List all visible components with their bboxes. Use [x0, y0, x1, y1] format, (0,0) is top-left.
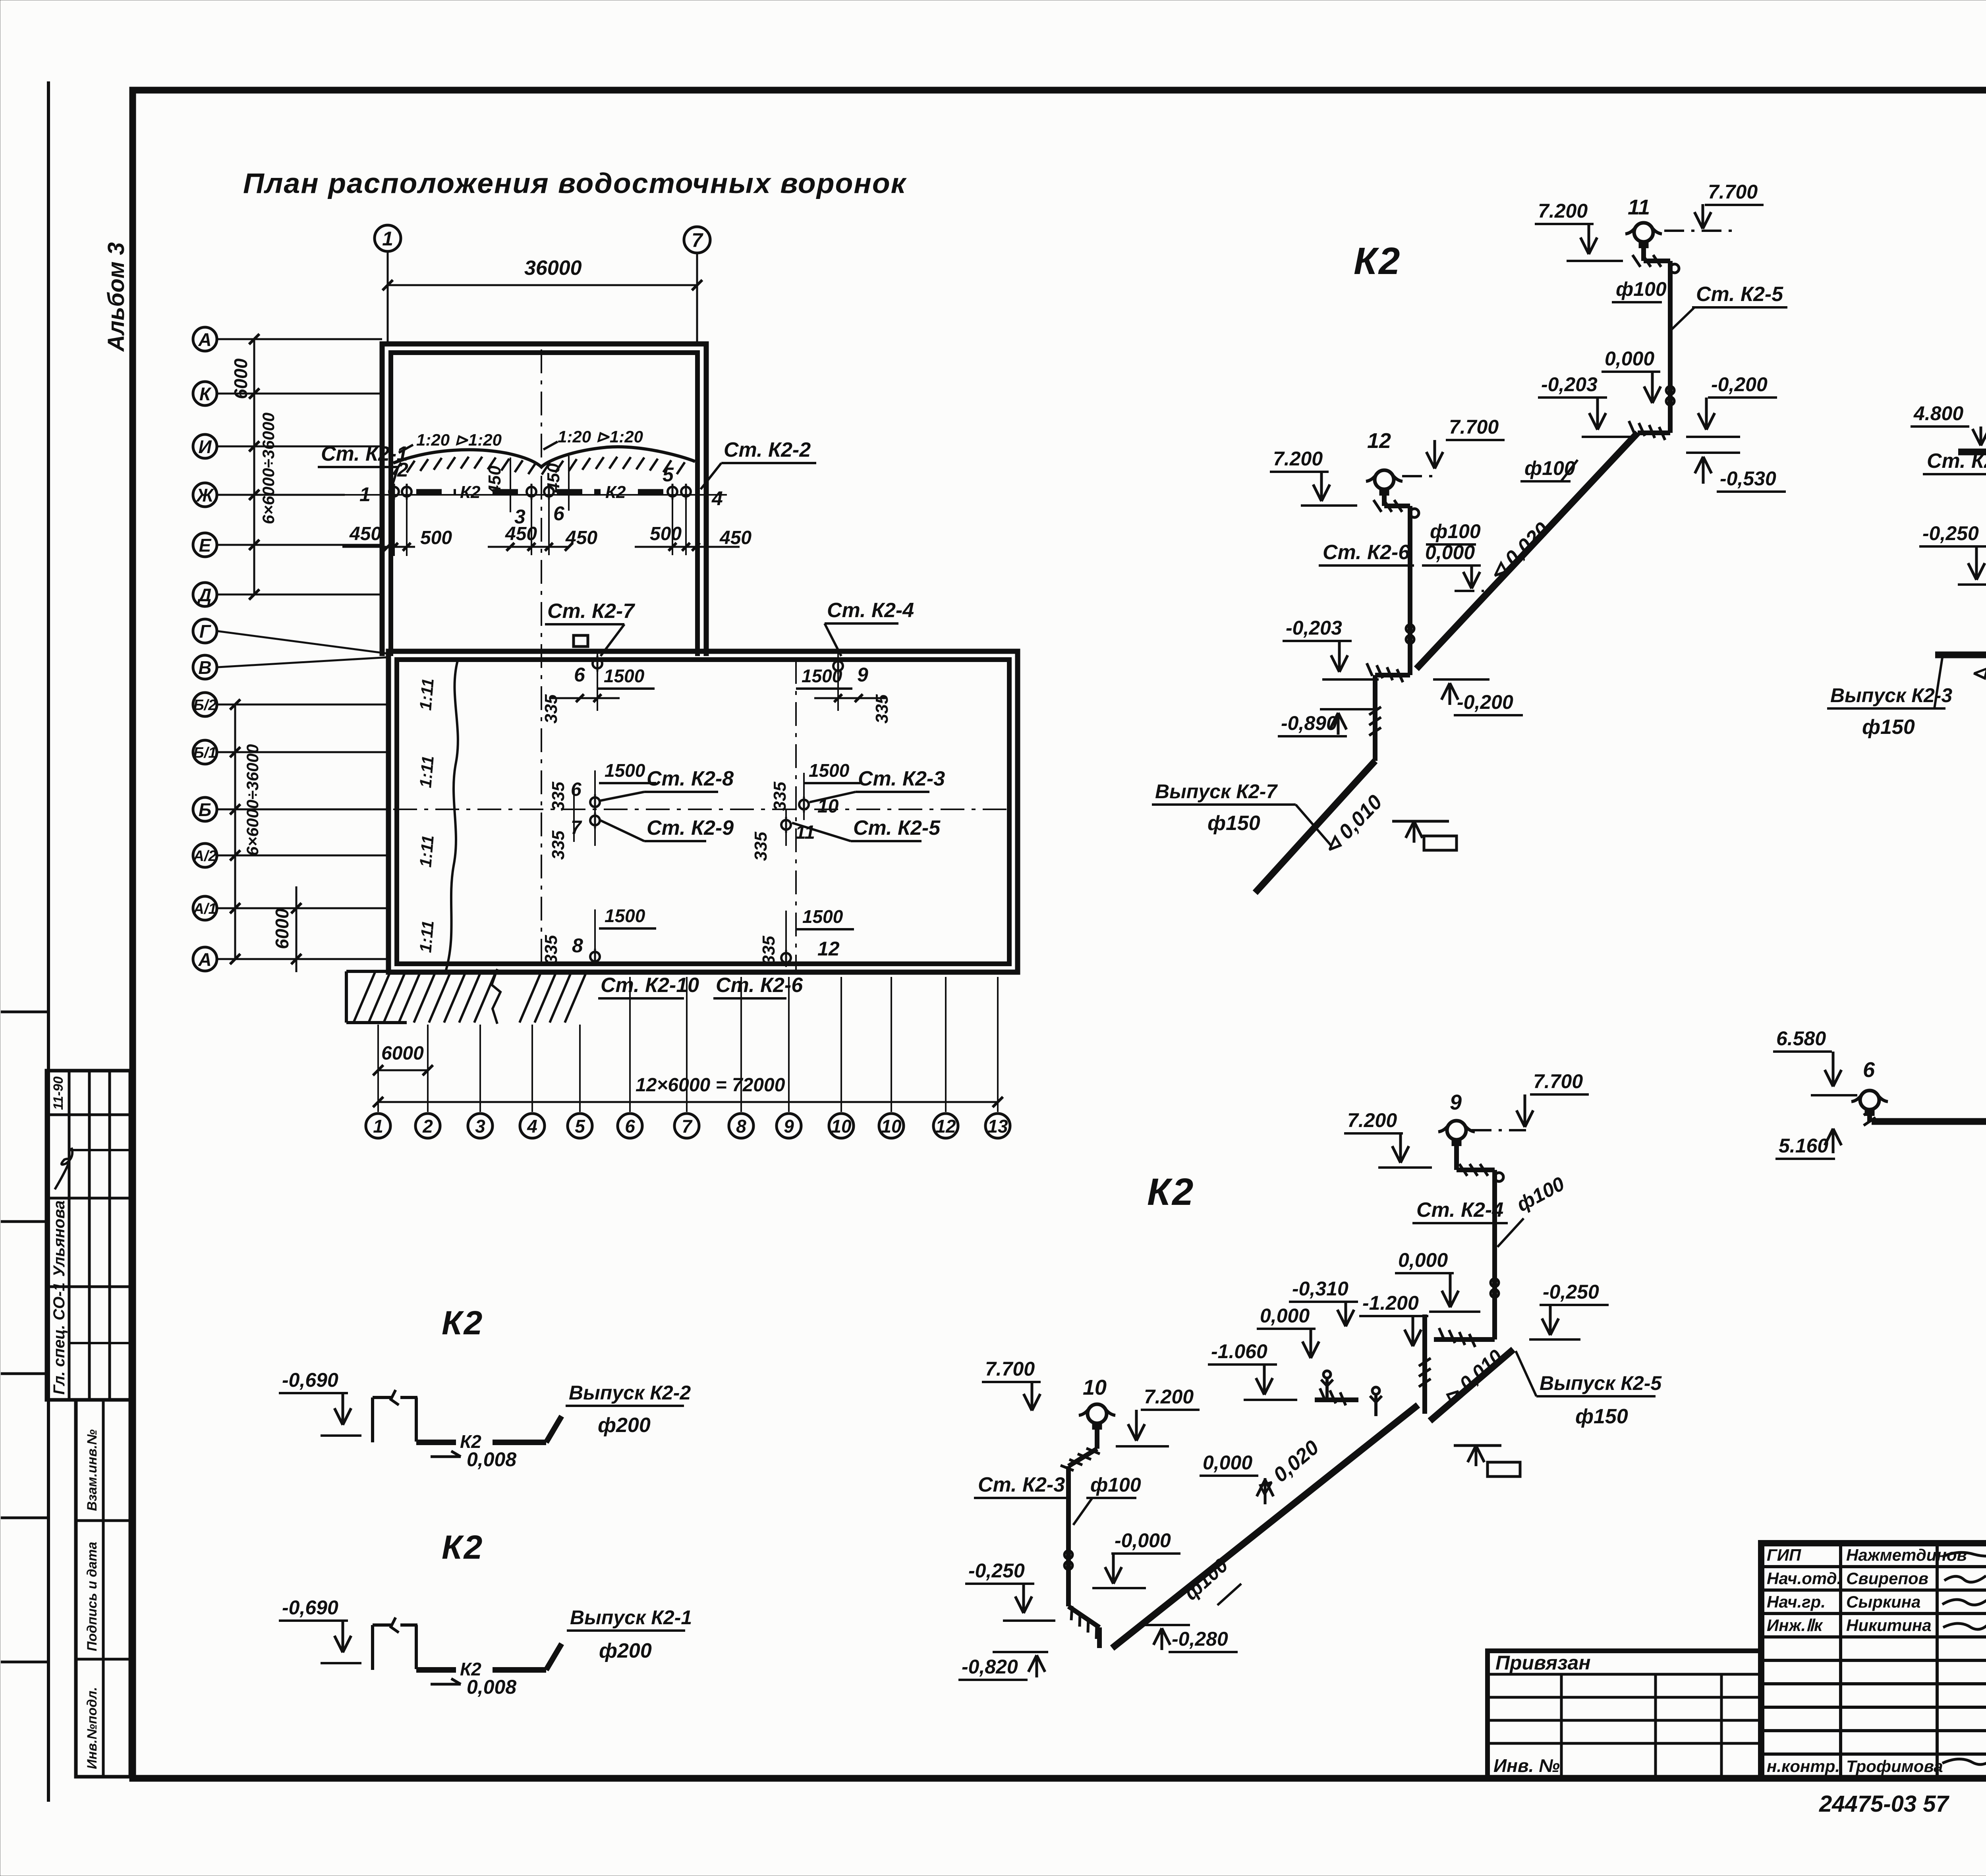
svg-text:450: 450 — [349, 523, 381, 544]
stack square mark on top wall — [574, 635, 588, 647]
svg-text:335: 335 — [549, 830, 568, 860]
funnel 6 dim line — [551, 697, 620, 699]
roof funnel 6 middle — [590, 797, 600, 807]
svg-text:1:11: 1:11 — [416, 755, 437, 789]
cleanout stack К2-4 — [1491, 1279, 1499, 1287]
roof funnel 1 — [389, 487, 399, 496]
svg-text:А: А — [198, 949, 211, 970]
svg-text:7: 7 — [682, 1116, 693, 1137]
svg-text:13: 13 — [987, 1116, 1008, 1137]
roof ridge hatching — [393, 463, 401, 475]
svg-text:12: 12 — [1367, 429, 1391, 453]
roof funnel 9 lower building — [833, 661, 843, 671]
svg-text:8: 8 — [572, 934, 583, 957]
svg-text:6: 6 — [574, 664, 585, 686]
svg-text:Ст. К2-8: Ст. К2-8 — [647, 767, 734, 790]
svg-text:450: 450 — [544, 463, 563, 493]
svg-text:ф100: ф100 — [1524, 457, 1575, 479]
svg-text:А/2: А/2 — [193, 848, 216, 865]
svg-text:Ст. К2-10: Ст. К2-10 — [601, 974, 699, 997]
funnel 6 axis line — [597, 651, 598, 711]
centerline axis Б horizontal — [393, 809, 1014, 810]
svg-text:-1.060: -1.060 — [1211, 1340, 1267, 1363]
svg-text:1: 1 — [359, 483, 371, 506]
funnel 11 schematic — [1634, 223, 1653, 242]
slope arrow 0,008 E — [431, 1455, 461, 1458]
ground arrow C — [1454, 1444, 1501, 1447]
axis circle К — [193, 382, 217, 405]
column circle 1 — [366, 1114, 390, 1138]
svg-text:Привязан: Привязан — [1495, 1652, 1591, 1674]
svg-text:К: К — [199, 384, 212, 404]
svg-text:335: 335 — [541, 935, 561, 964]
svg-text:А: А — [198, 329, 211, 350]
svg-text:1500: 1500 — [604, 666, 645, 686]
svg-text:3: 3 — [475, 1116, 485, 1137]
svg-text:24475-03 57: 24475-03 57 — [1819, 1791, 1949, 1817]
svg-text:-0,250: -0,250 — [968, 1559, 1025, 1582]
left margin stamp table upper box — [46, 1071, 130, 1400]
K2 roof drain line dashed left — [416, 489, 456, 494]
svg-text:335: 335 — [549, 782, 568, 811]
dimension line 6000 lower — [296, 886, 298, 972]
dimension line 72000 — [378, 1101, 998, 1103]
outlet pipe E — [416, 1440, 456, 1445]
svg-text:7: 7 — [692, 229, 703, 251]
axis leader line В — [218, 657, 388, 667]
axis circle В — [193, 655, 217, 679]
svg-text:0,008: 0,008 — [467, 1676, 516, 1698]
well box F — [371, 1625, 374, 1670]
svg-text:ф200: ф200 — [599, 1639, 652, 1662]
svg-text:7.700: 7.700 — [1708, 181, 1758, 203]
funnel 12 axis line — [785, 911, 787, 967]
svg-text:-1.200: -1.200 — [1362, 1292, 1419, 1314]
column circle 4 — [520, 1114, 545, 1138]
axis leader line Г — [217, 631, 388, 654]
svg-text:-0,250: -0,250 — [1543, 1281, 1599, 1303]
svg-text:Ст. К2-3: Ст. К2-3 — [858, 767, 945, 790]
basement rect C — [1488, 1462, 1520, 1476]
ground arrow at outlet A — [1392, 820, 1449, 823]
svg-text:0,000: 0,000 — [1260, 1305, 1310, 1327]
svg-text:-0,250: -0,250 — [1922, 522, 1979, 544]
svg-text:-0,690: -0,690 — [282, 1596, 338, 1619]
svg-text:5: 5 — [663, 463, 674, 486]
lower riser to outlet — [1373, 675, 1377, 761]
svg-text:6000: 6000 — [381, 1043, 424, 1064]
svg-text:450: 450 — [719, 527, 752, 548]
svg-text:Выпуск К2-2: Выпуск К2-2 — [569, 1382, 691, 1404]
svg-text:План расположения водосточных: План расположения водосточных воронок — [243, 168, 907, 199]
svg-text:-0,000: -0,000 — [1115, 1529, 1171, 1552]
svg-text:1500: 1500 — [605, 760, 645, 781]
axis circle А — [193, 947, 217, 971]
roof funnel 11 middle — [781, 820, 791, 830]
collector pipe segment C — [1315, 1397, 1358, 1402]
roof funnel 3 — [527, 487, 536, 496]
K2 roof drain line dashed mid — [557, 489, 601, 494]
dimension line 6000 columns — [378, 1069, 428, 1071]
outlet pipe F — [416, 1667, 456, 1673]
svg-text:К2: К2 — [1147, 1171, 1195, 1213]
svg-text:Нач.гр.: Нач.гр. — [1767, 1592, 1826, 1611]
outlet diagonal Выпуск К2-5 — [1430, 1349, 1513, 1421]
svg-text:-0,200: -0,200 — [1457, 691, 1513, 713]
svg-text:0,008: 0,008 — [467, 1448, 516, 1471]
junction elbow bottom A — [1375, 673, 1410, 677]
title block staff columns — [1839, 1543, 1842, 1778]
column circle 2 — [415, 1114, 440, 1138]
roof funnel 6 — [544, 487, 554, 496]
svg-text:7.200: 7.200 — [1347, 1109, 1397, 1131]
lower building wall inner — [397, 660, 1009, 964]
column circle 1 top — [375, 225, 401, 251]
svg-text:Д: Д — [197, 585, 211, 605]
axis circle Б — [193, 797, 217, 821]
svg-text:-0,203: -0,203 — [1541, 373, 1598, 396]
svg-text:Ульянова: Ульянова — [50, 1200, 68, 1277]
axis circle Г — [193, 619, 217, 643]
attachment table left — [1488, 1651, 1761, 1778]
svg-text:Ст. К2-4: Ст. К2-4 — [827, 599, 914, 622]
column circle 13 — [985, 1114, 1010, 1138]
svg-text:1500: 1500 — [809, 760, 850, 781]
svg-text:Б/1: Б/1 — [193, 745, 217, 761]
svg-text:9: 9 — [857, 664, 868, 686]
svg-text:4: 4 — [527, 1116, 537, 1137]
svg-text:Нач.отд.: Нач.отд. — [1767, 1569, 1841, 1588]
upper building wall inner — [391, 353, 697, 656]
svg-text:Инж.Ⅱк: Инж.Ⅱк — [1767, 1616, 1823, 1635]
svg-text:450: 450 — [505, 523, 537, 544]
left margin attribute strip box — [76, 1400, 130, 1777]
svg-text:Инв. №: Инв. № — [1493, 1755, 1560, 1776]
svg-text:Никитина: Никитина — [1846, 1616, 1932, 1635]
column circle 6 — [618, 1114, 642, 1138]
left margin stamp table horizontals — [46, 1114, 130, 1116]
svg-text:-0,200: -0,200 — [1711, 373, 1768, 396]
roof funnel 2 — [402, 487, 411, 496]
column circle 8 — [729, 1114, 753, 1138]
svg-text:Инв.№подл.: Инв.№подл. — [85, 1687, 100, 1769]
svg-text:1500: 1500 — [605, 905, 645, 926]
upper building wall outer — [382, 344, 706, 656]
title block staff signatures — [1942, 1552, 1986, 1557]
title block outline — [1761, 1543, 1986, 1778]
svg-text:8: 8 — [736, 1116, 746, 1137]
svg-text:ф100: ф100 — [1616, 278, 1667, 300]
axis circle А/2 — [193, 843, 217, 867]
funnel 6 schematic — [1860, 1090, 1879, 1110]
main horizontal pipe D — [1872, 1118, 1986, 1125]
axis circle Е — [193, 533, 217, 557]
axis circle И — [193, 434, 217, 458]
svg-text:Ст. К2-9: Ст. К2-9 — [647, 816, 734, 840]
svg-text:ф200: ф200 — [598, 1414, 651, 1437]
terrain wavy line inside building — [446, 661, 458, 971]
riser stack К2-5 — [1641, 241, 1646, 261]
svg-text:7.700: 7.700 — [1533, 1070, 1583, 1092]
svg-text:6: 6 — [553, 502, 565, 525]
svg-text:Гл. спец. СО-1: Гл. спец. СО-1 — [50, 1282, 68, 1395]
roof funnel 8 lower — [590, 952, 600, 961]
svg-text:Ст. К2-1: Ст. К2-1 — [1927, 450, 1986, 473]
svg-text:10: 10 — [881, 1116, 902, 1137]
left margin attribute strip divider — [102, 1400, 105, 1777]
svg-text:12: 12 — [935, 1116, 956, 1137]
svg-text:ф150: ф150 — [1207, 812, 1260, 835]
funnel 9 dim line — [814, 697, 886, 699]
svg-text:10: 10 — [1083, 1376, 1107, 1399]
svg-text:1500: 1500 — [802, 906, 843, 927]
svg-text:6: 6 — [571, 779, 582, 800]
cleanout stack К2-3 — [1064, 1551, 1072, 1559]
bottom elbow stack К2-3 — [1068, 1606, 1099, 1627]
svg-text:Б: Б — [199, 799, 212, 820]
centerline axis 5 vertical — [541, 349, 542, 972]
svg-text:12×6000 = 72000: 12×6000 = 72000 — [636, 1075, 785, 1096]
svg-text:0,000: 0,000 — [1605, 347, 1654, 370]
svg-text:1: 1 — [373, 1116, 383, 1137]
funnel 6/7 axis lines middle — [594, 770, 596, 846]
funnel 8 axis line — [594, 909, 596, 966]
svg-text:Ж: Ж — [196, 485, 214, 506]
column circle 5 — [568, 1114, 592, 1138]
column extension lines — [377, 1025, 379, 1112]
roof funnel 7 middle — [590, 816, 600, 825]
column circle 12 — [933, 1114, 958, 1138]
svg-text:Трофимова: Трофимова — [1846, 1757, 1943, 1776]
svg-text:-0,820: -0,820 — [962, 1656, 1018, 1678]
svg-text:6000: 6000 — [272, 908, 292, 949]
svg-text:-0,310: -0,310 — [1292, 1278, 1348, 1300]
well box E — [371, 1397, 374, 1442]
funnel 10/11 axis lines — [803, 773, 805, 820]
riser stack К2-3 — [1095, 1424, 1099, 1449]
svg-text:Ст. К2-3: Ст. К2-3 — [978, 1473, 1065, 1496]
svg-text:9: 9 — [784, 1116, 794, 1137]
sheet left edge line — [47, 81, 50, 1802]
svg-text:11: 11 — [1628, 195, 1650, 219]
vertical 450 dim line right — [568, 456, 570, 511]
axis circle А/1 — [193, 896, 217, 920]
roof ridge wavy line — [393, 447, 695, 467]
svg-text:-0,280: -0,280 — [1172, 1628, 1228, 1650]
svg-text:-0,890: -0,890 — [1281, 712, 1337, 734]
svg-text:Выпуск К2-1: Выпуск К2-1 — [570, 1606, 692, 1629]
svg-text:Ст. К2-1: Ст. К2-1 — [321, 442, 408, 465]
outlet diagonal К2-7 — [1255, 761, 1375, 893]
svg-text:0,000: 0,000 — [1425, 541, 1475, 564]
left vertical dimension line upper — [253, 339, 255, 594]
svg-text:Ст. К2-6: Ст. К2-6 — [716, 974, 803, 997]
riser stack К2-6 — [1382, 488, 1387, 506]
axis circle Д — [193, 583, 217, 606]
svg-text:Ст. К2-4: Ст. К2-4 — [1416, 1199, 1503, 1222]
axis leader lines — [217, 338, 382, 340]
svg-text:ф100: ф100 — [1430, 520, 1481, 542]
svg-text:Г: Г — [199, 621, 211, 642]
svg-text:1:11: 1:11 — [416, 834, 437, 868]
svg-text:В: В — [198, 657, 211, 678]
svg-text:36000: 36000 — [524, 257, 582, 280]
svg-text:7.700: 7.700 — [985, 1358, 1035, 1380]
svg-text:Сыркина: Сыркина — [1846, 1592, 1921, 1611]
svg-text:Ст. К2-5: Ст. К2-5 — [1696, 283, 1783, 306]
svg-text:6000: 6000 — [230, 358, 251, 399]
funnel extension lines to dims — [393, 497, 395, 556]
svg-text:11-90: 11-90 — [51, 1076, 66, 1110]
svg-text:Ст. К2-2: Ст. К2-2 — [724, 438, 811, 461]
svg-text:Ст. К2-7: Ст. К2-7 — [547, 600, 635, 623]
svg-text:К2: К2 — [442, 1304, 484, 1341]
svg-text:1:11: 1:11 — [416, 677, 437, 711]
svg-text:450: 450 — [565, 527, 597, 548]
axis circle Ж — [193, 483, 217, 507]
junction riser C — [1422, 1314, 1427, 1414]
axis Ж line through building — [345, 494, 727, 496]
lower building wall outer — [388, 651, 1018, 972]
svg-text:А/1: А/1 — [193, 901, 216, 917]
svg-text:2: 2 — [422, 1116, 433, 1137]
svg-text:К2: К2 — [442, 1529, 484, 1566]
funnel dimension lines under axis Ж — [342, 546, 415, 548]
svg-text:335: 335 — [770, 782, 790, 811]
fold mark ticks on left edge — [1, 1011, 47, 1013]
roof funnel 4 — [681, 487, 691, 496]
column circle 10 — [879, 1114, 904, 1138]
svg-text:И: И — [198, 436, 212, 457]
svg-text:7.700: 7.700 — [1449, 416, 1499, 438]
column circle 7 top — [684, 227, 710, 253]
funnel 10 schematic — [1088, 1404, 1107, 1423]
svg-text:Подпись и дата: Подпись и дата — [85, 1542, 100, 1651]
svg-text:н.контр.: н.контр. — [1767, 1757, 1840, 1776]
basement rect A — [1424, 836, 1457, 850]
svg-text:10: 10 — [831, 1116, 852, 1137]
svg-text:0,000: 0,000 — [1203, 1451, 1252, 1474]
svg-text:6×6000÷36000: 6×6000÷36000 — [243, 744, 262, 856]
cleanout on stack К2-5 — [1666, 386, 1674, 394]
svg-text:ф100: ф100 — [1090, 1474, 1141, 1496]
svg-text:ф150: ф150 — [1575, 1405, 1628, 1428]
left vertical dimension line lower — [234, 704, 236, 959]
svg-text:6: 6 — [1863, 1058, 1875, 1082]
svg-text:0,000: 0,000 — [1398, 1249, 1448, 1271]
left margin stamp signature — [55, 1148, 72, 1189]
funnel 9 schematic — [1447, 1121, 1466, 1140]
svg-text:Выпуск К2-7: Выпуск К2-7 — [1155, 780, 1278, 803]
svg-text:6.580: 6.580 — [1776, 1027, 1826, 1050]
funnel 12 schematic — [1375, 470, 1394, 489]
svg-text:12: 12 — [817, 938, 840, 960]
main diagonal pipe A — [1416, 433, 1638, 669]
svg-text:335: 335 — [759, 936, 779, 965]
roof funnel 12 lower — [781, 953, 791, 963]
left margin stamp table verticals — [68, 1071, 71, 1400]
retaining strip below building — [346, 970, 582, 973]
svg-text:1: 1 — [382, 228, 393, 250]
title block staff rows — [1761, 1565, 1986, 1568]
retaining strip break mark — [492, 969, 500, 1024]
svg-text:1:11: 1:11 — [416, 920, 437, 953]
svg-text:К2: К2 — [605, 483, 626, 502]
svg-text:Е: Е — [199, 535, 212, 556]
svg-text:⊲ 0,010: ⊲ 0,010 — [1970, 662, 1986, 685]
svg-text:335: 335 — [751, 832, 771, 861]
svg-text:Выпуск К2-5: Выпуск К2-5 — [1540, 1372, 1662, 1394]
svg-text:7.200: 7.200 — [1144, 1386, 1194, 1408]
svg-text:1:20 ⊳1:20: 1:20 ⊳1:20 — [558, 427, 643, 446]
slope arrow 0,008 F — [431, 1683, 461, 1686]
funnel 9 axis line — [837, 651, 839, 711]
svg-text:Ст. К2-6: Ст. К2-6 — [1323, 541, 1410, 564]
axis circle Б/1 — [193, 740, 217, 764]
svg-text:Альбом 3: Альбом 3 — [103, 242, 129, 352]
roof funnel 5 — [668, 487, 677, 496]
svg-text:5: 5 — [575, 1116, 585, 1137]
main horizontal pipe B — [1958, 449, 1986, 455]
svg-text:ГИП: ГИП — [1767, 1546, 1801, 1564]
svg-text:К2: К2 — [1354, 240, 1401, 282]
svg-text:7: 7 — [571, 817, 582, 838]
roof funnel 10 middle — [799, 800, 809, 809]
svg-text:Ст. К2-5: Ст. К2-5 — [853, 816, 941, 840]
main diagonal pipe C — [1112, 1405, 1418, 1648]
svg-text:500: 500 — [420, 527, 452, 548]
svg-text:К2: К2 — [460, 483, 481, 502]
elbow bottom stack К2-4 — [1434, 1337, 1495, 1342]
column circle 7 — [674, 1114, 699, 1138]
dimension line 36000 — [388, 284, 697, 286]
svg-text:500: 500 — [650, 523, 682, 544]
svg-text:1500: 1500 — [802, 666, 842, 686]
svg-text:5.160: 5.160 — [1779, 1135, 1828, 1157]
svg-text:-0,203: -0,203 — [1286, 617, 1342, 639]
svg-text:7.200: 7.200 — [1273, 448, 1323, 470]
svg-text:-0,690: -0,690 — [282, 1369, 338, 1391]
centerline axis 9 vertical — [795, 660, 797, 972]
svg-text:Б/2: Б/2 — [193, 697, 217, 714]
vent stems on collector C — [1325, 1378, 1329, 1400]
svg-text:9: 9 — [1450, 1090, 1462, 1114]
svg-text:-0,530: -0,530 — [1720, 467, 1776, 490]
roof funnel 6 lower building — [593, 659, 602, 668]
column circle 10 — [829, 1114, 854, 1138]
svg-text:ф150: ф150 — [1862, 716, 1915, 739]
funnel 6 connection — [1867, 1110, 1872, 1121]
svg-text:1:20 ⊳1:20: 1:20 ⊳1:20 — [416, 430, 502, 449]
svg-text:Взам.инв.№: Взам.инв.№ — [85, 1429, 100, 1511]
column circle 9 — [777, 1114, 801, 1138]
svg-text:4: 4 — [711, 487, 723, 510]
svg-text:7.200: 7.200 — [1538, 200, 1588, 222]
svg-text:4.800: 4.800 — [1913, 402, 1963, 425]
retaining strip hatching — [354, 971, 375, 1023]
vertical 450 dim line left — [510, 457, 511, 512]
svg-text:450: 450 — [485, 465, 504, 495]
outlet pipe B — [1935, 652, 1986, 658]
elbow at base of stack К2-5 — [1638, 430, 1670, 435]
axis circle А — [193, 327, 217, 351]
svg-text:6×6000÷36000: 6×6000÷36000 — [259, 413, 278, 524]
svg-text:6: 6 — [625, 1116, 635, 1137]
cleanout on stack К2-6 — [1406, 625, 1414, 633]
axis circle Б/2 — [193, 693, 217, 716]
column circle 3 — [468, 1114, 493, 1138]
svg-text:Свирепов: Свирепов — [1846, 1569, 1928, 1588]
